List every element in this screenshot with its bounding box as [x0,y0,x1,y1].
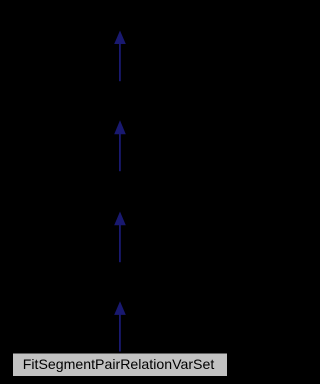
inheritance arrow 4 (bottom) [114,301,126,351]
inheritance arrow 3 [114,212,126,263]
svg-text:FitSegmentPairRelationVarSet: FitSegmentPairRelationVarSet [23,356,215,372]
inheritance arrow 1 (topmost) [114,31,126,82]
class box FitSegmentPairRelationVarSet [12,353,228,378]
inheritance arrow 2 [114,120,126,171]
